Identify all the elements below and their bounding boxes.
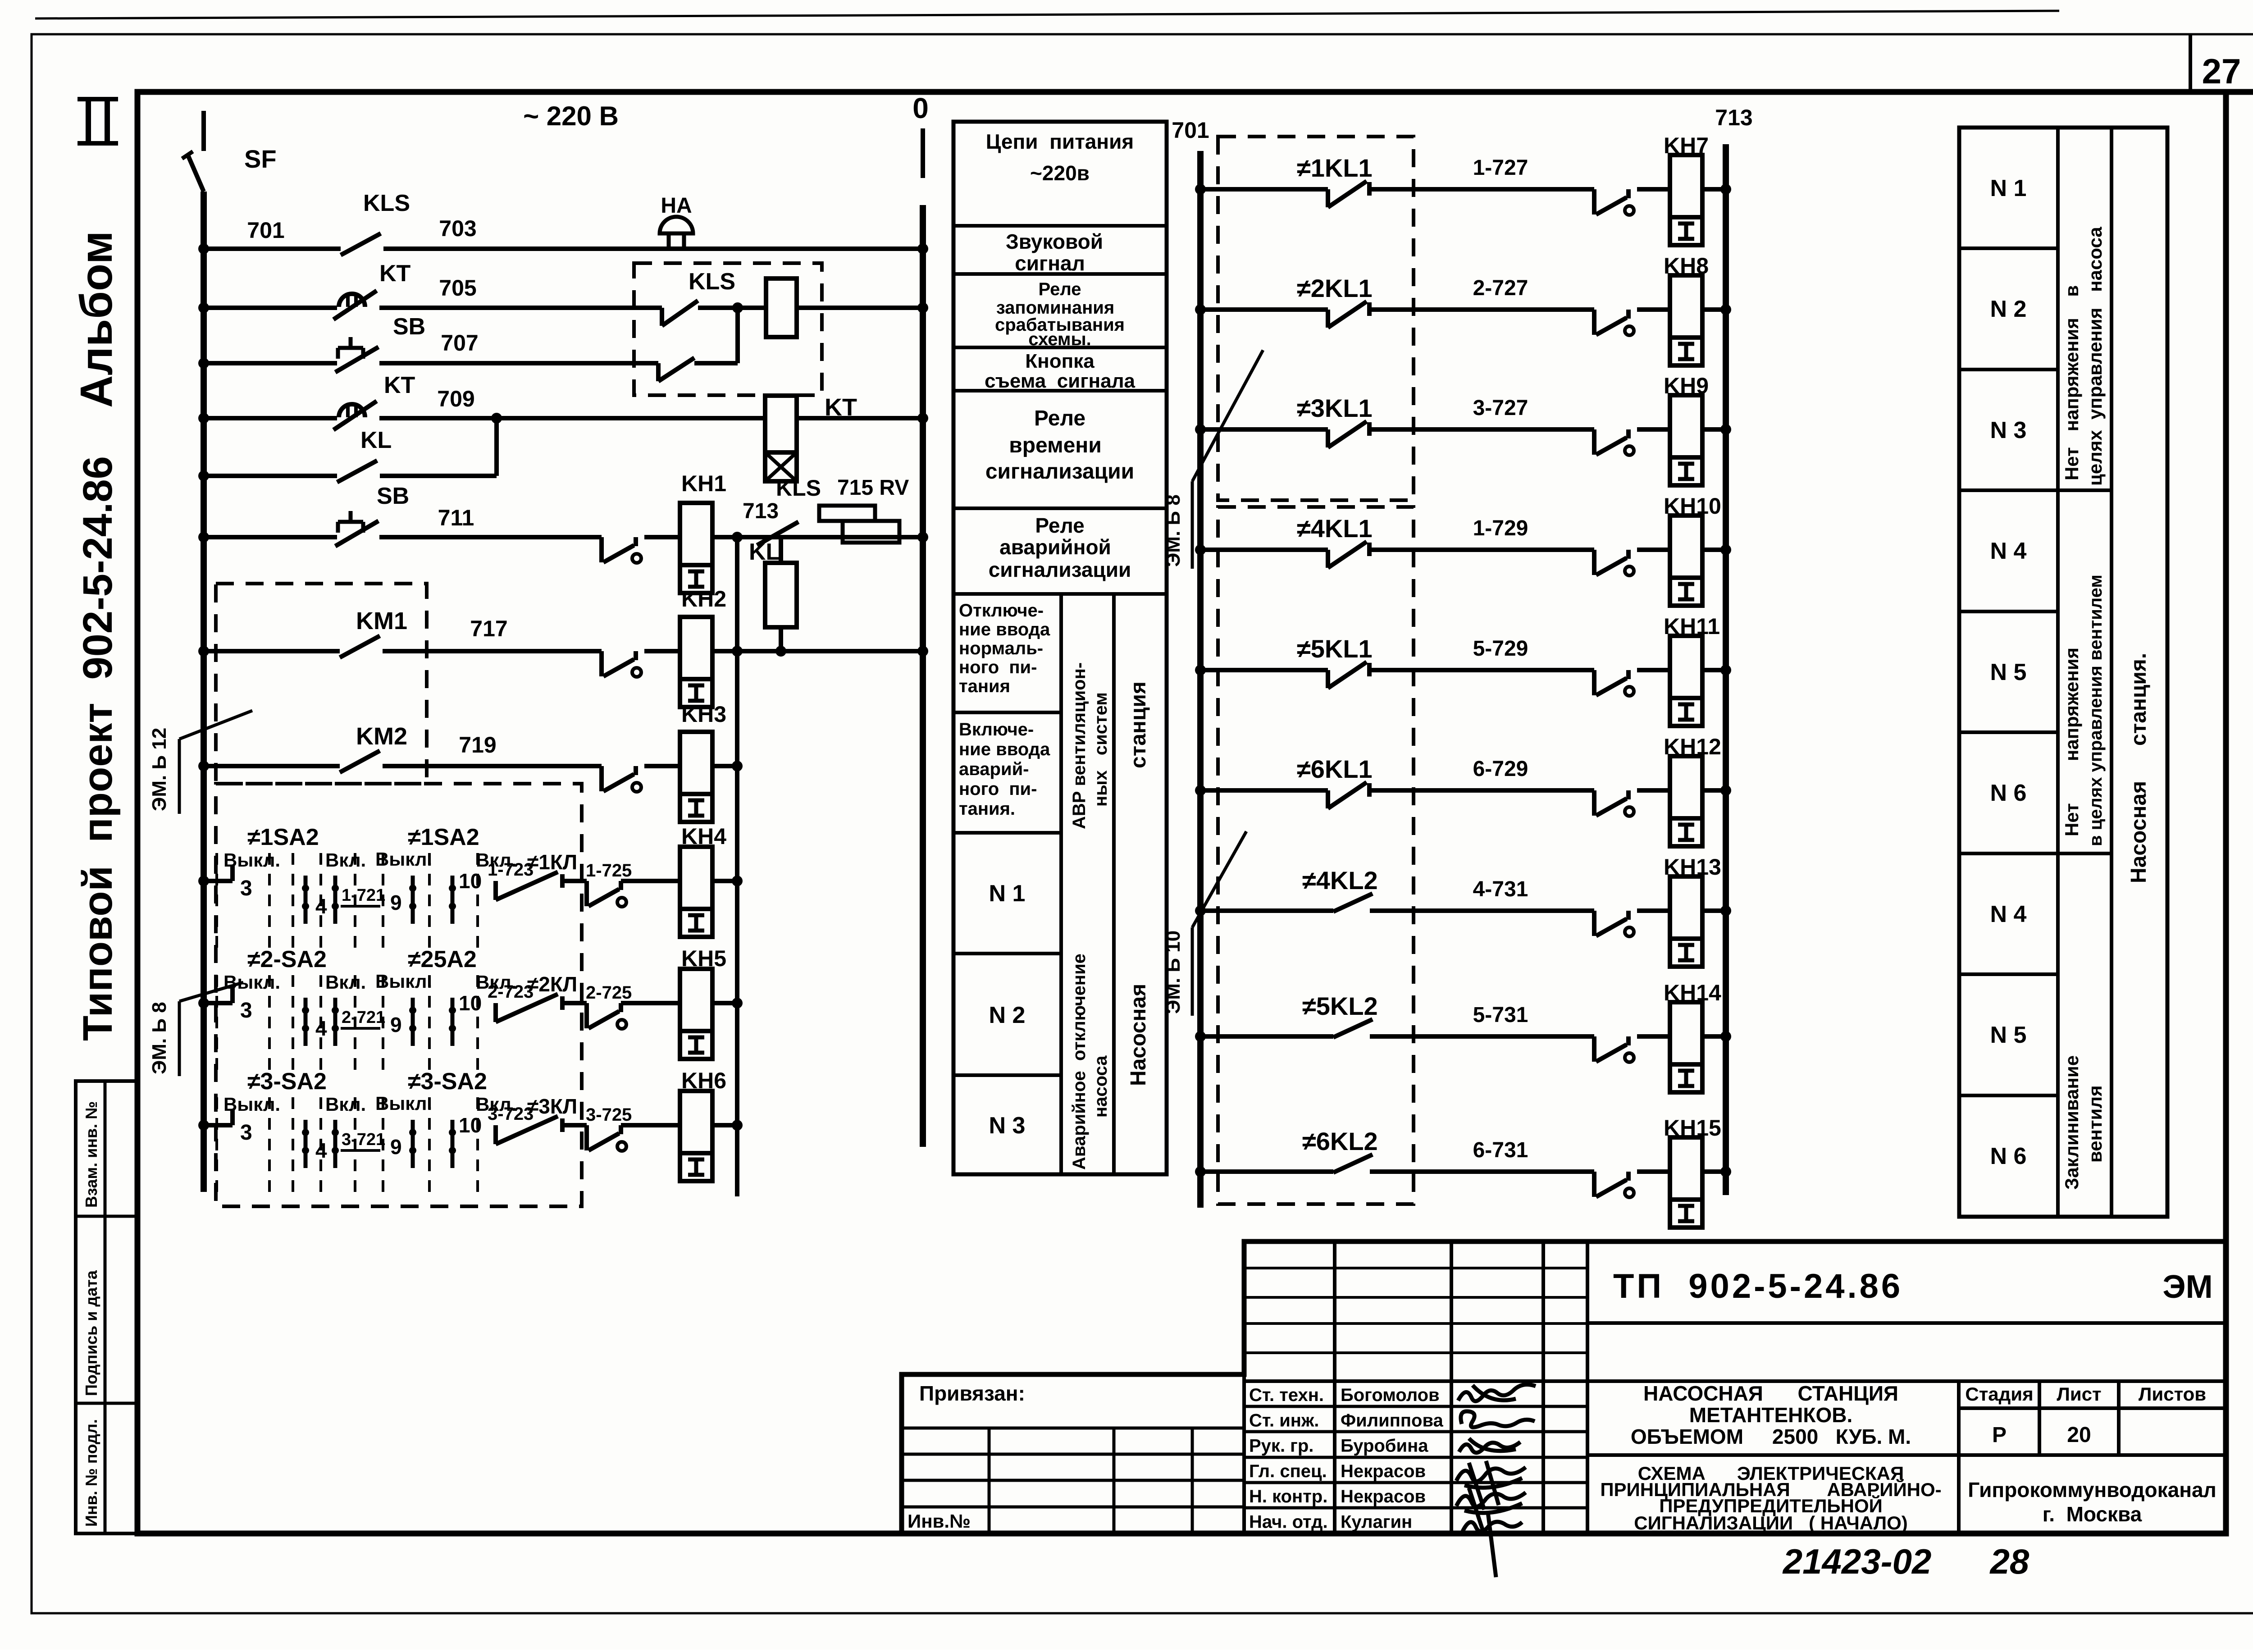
svg-text:Буробина: Буробина: [1341, 1436, 1428, 1456]
svg-text:KT: KT: [384, 372, 415, 398]
svg-text:Богомолов: Богомолов: [1341, 1385, 1440, 1405]
svg-text:НАСОСНАЯ СТАНЦИЯ: НАСОСНАЯ СТАНЦИЯ: [1643, 1382, 1898, 1405]
svg-text:N 6: N 6: [1990, 1143, 2027, 1169]
svg-text:N 1: N 1: [989, 881, 1026, 907]
svg-text:N 2: N 2: [989, 1002, 1026, 1028]
svg-text:709: 709: [437, 386, 474, 411]
svg-text:Заклинивание: Заклинивание: [2061, 1055, 2082, 1190]
svg-text:KT: KT: [379, 260, 411, 287]
svg-text:Насосная: Насосная: [2127, 781, 2151, 883]
svg-text:9: 9: [390, 1135, 402, 1159]
svg-text:≠6KL2: ≠6KL2: [1302, 1127, 1378, 1155]
svg-text:701: 701: [247, 218, 284, 243]
svg-text:НА: НА: [661, 194, 692, 218]
svg-text:СИГНАЛИЗАЦИИ ( НАЧАЛО): СИГНАЛИЗАЦИИ ( НАЧАЛО): [1634, 1512, 1907, 1533]
svg-text:ЭМ. Ь 10: ЭМ. Ь 10: [1162, 931, 1184, 1014]
svg-text:KH1: KH1: [681, 471, 726, 496]
svg-text:2-723: 2-723: [488, 982, 534, 1002]
svg-text:ных систем: ных систем: [1091, 692, 1111, 807]
svg-text:Выкл.: Выкл.: [223, 1094, 280, 1115]
svg-text:≠4KL1: ≠4KL1: [1297, 514, 1373, 543]
svg-text:≠5KL2: ≠5KL2: [1302, 992, 1378, 1020]
svg-text:KH3: KH3: [681, 702, 726, 727]
svg-text:3-727: 3-727: [1473, 396, 1528, 420]
svg-text:~220в: ~220в: [1030, 161, 1090, 185]
svg-text:4: 4: [315, 894, 327, 918]
svg-text:SB: SB: [393, 314, 425, 340]
svg-text:703: 703: [439, 216, 476, 241]
svg-text:Взам. инв. №: Взам. инв. №: [82, 1101, 100, 1208]
svg-text:съема сигнала: съема сигнала: [985, 370, 1136, 392]
svg-text:Типовой проект 902-5-24.86: Типовой проект 902-5-24.86: [75, 456, 121, 1041]
svg-text:ТП 902-5-24.86: ТП 902-5-24.86: [1613, 1267, 1903, 1305]
svg-text:≠3-SA2: ≠3-SA2: [408, 1068, 487, 1095]
svg-text:тания: тания: [959, 676, 1010, 696]
svg-text:времени: времени: [1009, 434, 1102, 457]
svg-text:Нет напряжения: Нет напряжения: [2061, 648, 2082, 836]
svg-text:Вкл.: Вкл.: [325, 972, 366, 993]
svg-text:N 3: N 3: [1990, 417, 2027, 443]
svg-text:Гл. спец.: Гл. спец.: [1249, 1461, 1327, 1481]
svg-text:≠3KL1: ≠3KL1: [1297, 394, 1373, 422]
svg-text:KL: KL: [749, 539, 780, 565]
svg-text:705: 705: [439, 275, 476, 301]
svg-text:сигнализации: сигнализации: [989, 558, 1131, 581]
svg-text:3: 3: [240, 999, 252, 1022]
svg-text:N 4: N 4: [1990, 901, 2027, 927]
svg-text:АВР вентиляцион-: АВР вентиляцион-: [1069, 662, 1089, 829]
svg-text:Некрасов: Некрасов: [1341, 1461, 1426, 1481]
svg-text:SF: SF: [244, 145, 277, 173]
svg-text:≠2KL1: ≠2KL1: [1297, 274, 1373, 302]
svg-text:0: 0: [912, 92, 929, 124]
svg-text:Ст. инж.: Ст. инж.: [1249, 1410, 1319, 1430]
svg-text:≠5KL1: ≠5KL1: [1297, 634, 1373, 663]
svg-text:Выкл.: Выкл.: [223, 972, 280, 993]
svg-text:Выкл.: Выкл.: [375, 849, 432, 870]
svg-text:Включе-: Включе-: [959, 720, 1034, 739]
svg-text:701: 701: [1172, 118, 1209, 143]
svg-text:KH2: KH2: [681, 586, 726, 612]
svg-text:713: 713: [1715, 105, 1752, 130]
svg-text:Ст. техн.: Ст. техн.: [1249, 1385, 1324, 1405]
svg-text:≠6KL1: ≠6KL1: [1297, 755, 1373, 783]
svg-text:N 2: N 2: [1990, 296, 2027, 322]
svg-text:KM2: KM2: [356, 723, 407, 750]
svg-text:≠2-SA2: ≠2-SA2: [247, 946, 327, 972]
svg-text:Реле: Реле: [1035, 514, 1084, 537]
svg-text:1-721: 1-721: [342, 886, 385, 905]
svg-text:целях управления насоса: целях управления насоса: [2084, 227, 2106, 486]
svg-text:N 3: N 3: [989, 1113, 1026, 1139]
svg-text:1-729: 1-729: [1473, 516, 1528, 540]
svg-text:Гипрокоммунводоканал: Гипрокоммунводоканал: [1968, 1478, 2217, 1501]
svg-text:ного пи-: ного пи-: [959, 779, 1037, 799]
svg-text:Отключе-: Отключе-: [959, 601, 1044, 621]
svg-text:ЭМ: ЭМ: [2162, 1269, 2212, 1305]
svg-text:Некрасов: Некрасов: [1341, 1487, 1426, 1506]
svg-text:≠3КЛ: ≠3КЛ: [527, 1095, 577, 1118]
svg-text:Лист: Лист: [2057, 1383, 2101, 1405]
svg-text:МЕТАНТЕНКОВ.: МЕТАНТЕНКОВ.: [1689, 1403, 1853, 1427]
svg-text:719: 719: [459, 732, 496, 758]
svg-text:N 4: N 4: [1990, 538, 2027, 564]
svg-text:1-725: 1-725: [586, 861, 632, 881]
svg-text:3-721: 3-721: [342, 1130, 385, 1149]
svg-text:Нет напряжения в: Нет напряжения в: [2061, 285, 2082, 480]
svg-text:Кулагин: Кулагин: [1341, 1512, 1412, 1532]
svg-text:нормаль-: нормаль-: [959, 639, 1043, 658]
svg-text:2-725: 2-725: [586, 983, 632, 1003]
svg-text:1-727: 1-727: [1473, 156, 1528, 180]
svg-text:2-721: 2-721: [342, 1008, 385, 1027]
svg-text:5-731: 5-731: [1473, 1003, 1528, 1027]
svg-text:ние ввода: ние ввода: [959, 620, 1050, 639]
svg-text:9: 9: [390, 1013, 402, 1036]
svg-text:~ 220 В: ~ 220 В: [523, 101, 619, 131]
svg-text:Нач. отд.: Нач. отд.: [1249, 1512, 1328, 1532]
svg-text:вентиля: вентиля: [2084, 1085, 2106, 1163]
svg-text:N 1: N 1: [1990, 175, 2027, 201]
svg-text:KM1: KM1: [356, 607, 407, 634]
svg-text:ние ввода: ние ввода: [959, 739, 1050, 759]
svg-text:20: 20: [2067, 1423, 2091, 1447]
svg-text:ЭМ. Ь 12: ЭМ. Ь 12: [148, 728, 170, 811]
svg-text:Альбом: Альбом: [71, 231, 122, 408]
svg-text:N 6: N 6: [1990, 780, 2027, 806]
svg-text:Звуковой: Звуковой: [1006, 230, 1103, 253]
svg-text:5-729: 5-729: [1473, 637, 1528, 661]
svg-text:9: 9: [390, 891, 402, 914]
svg-text:SB: SB: [377, 483, 409, 509]
svg-text:≠1KL1: ≠1KL1: [1297, 154, 1373, 182]
svg-text:715 RV: 715 RV: [837, 476, 909, 500]
svg-text:Выкл.: Выкл.: [375, 971, 432, 992]
svg-text:6-729: 6-729: [1473, 757, 1528, 781]
svg-text:Реле: Реле: [1038, 279, 1081, 299]
svg-text:Аварийное отключение: Аварийное отключение: [1069, 954, 1089, 1170]
svg-text:Листов: Листов: [2139, 1383, 2206, 1405]
svg-text:≠1SA2: ≠1SA2: [408, 824, 479, 850]
svg-text:21423-02 28: 21423-02 28: [1782, 1542, 2030, 1581]
svg-text:Вкл.: Вкл.: [325, 1094, 366, 1115]
svg-text:KLS: KLS: [689, 269, 735, 295]
svg-text:≠25А2: ≠25А2: [408, 946, 477, 972]
svg-text:аварий-: аварий-: [959, 759, 1029, 779]
svg-text:KL: KL: [360, 427, 392, 453]
svg-text:3: 3: [240, 1121, 252, 1145]
svg-text:Рук. гр.: Рук. гр.: [1249, 1436, 1313, 1456]
svg-text:3-723: 3-723: [488, 1104, 534, 1124]
svg-text:4: 4: [315, 1017, 327, 1040]
svg-text:N 5: N 5: [1990, 659, 2027, 685]
svg-text:N 5: N 5: [1990, 1022, 2027, 1048]
svg-text:2-727: 2-727: [1473, 276, 1528, 300]
svg-text:насоса: насоса: [1091, 1055, 1111, 1118]
svg-text:аварийной: аварийной: [999, 535, 1111, 559]
svg-text:Филиппова: Филиппова: [1341, 1410, 1444, 1430]
svg-text:KLS: KLS: [776, 475, 821, 501]
svg-text:Насосная: Насосная: [1126, 984, 1150, 1086]
svg-text:Цепи питания: Цепи питания: [986, 130, 1134, 153]
svg-text:1-723: 1-723: [488, 860, 534, 880]
svg-text:4-731: 4-731: [1473, 877, 1528, 901]
svg-text:ного пи-: ного пи-: [959, 657, 1037, 677]
svg-text:Выкл.: Выкл.: [375, 1093, 432, 1114]
svg-text:10: 10: [459, 991, 482, 1015]
svg-text:ЭМ. Ь 8: ЭМ. Ь 8: [148, 1002, 170, 1074]
svg-text:10: 10: [459, 1114, 482, 1137]
svg-text:≠3-SA2: ≠3-SA2: [247, 1068, 327, 1095]
svg-text:≠1SA2: ≠1SA2: [247, 824, 319, 850]
svg-text:707: 707: [441, 330, 478, 356]
svg-text:713: 713: [743, 499, 779, 523]
svg-text:Выкл.: Выкл.: [223, 849, 280, 871]
svg-text:в целях управления вентилем: в целях управления вентилем: [2086, 575, 2106, 846]
svg-text:3-725: 3-725: [586, 1105, 632, 1125]
svg-text:≠2КЛ: ≠2КЛ: [527, 972, 577, 996]
svg-text:Стадия: Стадия: [1965, 1383, 2033, 1405]
svg-text:711: 711: [438, 505, 474, 530]
svg-text:тания.: тания.: [959, 799, 1015, 819]
svg-text:3: 3: [240, 876, 252, 900]
svg-text:≠4KL2: ≠4KL2: [1302, 866, 1378, 894]
svg-text:4: 4: [315, 1139, 327, 1162]
svg-text:Р: Р: [1992, 1423, 2007, 1447]
svg-text:г. Москва: г. Москва: [2043, 1502, 2142, 1526]
svg-text:Кнопка: Кнопка: [1025, 350, 1095, 372]
svg-text:≠1КЛ: ≠1КЛ: [527, 850, 577, 874]
svg-text:сигнализации: сигнализации: [985, 460, 1134, 484]
svg-text:ЭМ. Ь 8: ЭМ. Ь 8: [1162, 494, 1184, 567]
svg-text:10: 10: [459, 869, 482, 893]
svg-text:сигнал: сигнал: [1015, 251, 1085, 275]
svg-text:KLS: KLS: [363, 190, 410, 216]
svg-text:717: 717: [470, 616, 507, 641]
svg-text:Инв.№: Инв.№: [908, 1511, 971, 1532]
svg-text:станция.: станция.: [2127, 653, 2151, 746]
svg-text:Привязан:: Привязан:: [919, 1382, 1025, 1405]
svg-text:Реле: Реле: [1034, 406, 1085, 430]
svg-text:6-731: 6-731: [1473, 1138, 1528, 1162]
svg-text:Н. контр.: Н. контр.: [1249, 1487, 1327, 1506]
svg-text:Подпись и дата: Подпись и дата: [82, 1270, 100, 1396]
svg-text:27: 27: [2202, 51, 2241, 91]
svg-text:Вкл.: Вкл.: [325, 849, 366, 871]
svg-text:ОБЪЕМОМ 2500 КУБ. М.: ОБЪЕМОМ 2500 КУБ. М.: [1631, 1425, 1911, 1448]
svg-text:схемы.: схемы.: [1028, 329, 1091, 349]
svg-text:Инв. № подл.: Инв. № подл.: [82, 1419, 100, 1527]
svg-text:станция: станция: [1126, 681, 1150, 768]
